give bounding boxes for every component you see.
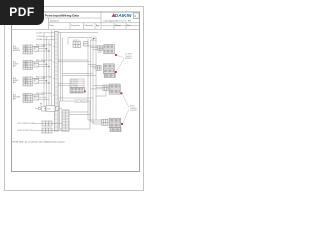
right bus R3	[92, 40, 94, 124]
mid wires lower	[63, 74, 97, 76]
feed label SIG	[36, 38, 54, 41]
feed label COM	[36, 36, 54, 38]
sensor block S2	[23, 61, 33, 70]
M2 lead	[34, 130, 43, 132]
junction dots	[43, 46, 49, 84]
sensor block S3	[23, 77, 33, 86]
callout text T1	[125, 54, 133, 61]
callout V1 upper line	[117, 56, 124, 72]
relay K4	[34, 95, 39, 100]
node G1 red	[115, 54, 117, 56]
svg-text:7 8 9: 7 8 9	[24, 51, 28, 53]
callout text T2	[130, 106, 137, 113]
svg-text:1 2 3: 1 2 3	[24, 94, 28, 96]
TB-A caption	[73, 40, 80, 42]
bus line B2	[46, 37, 48, 106]
svg-text:7 8 9: 7 8 9	[24, 83, 28, 85]
svg-text:REMOTE SETPOINT: REMOTE SETPOINT	[18, 130, 34, 132]
node dot top	[93, 38, 94, 39]
relay K2	[34, 62, 39, 67]
bus line B4	[51, 31, 53, 106]
bus line B3	[48, 40, 50, 106]
page outer border	[5, 7, 144, 191]
label box LB1	[91, 37, 96, 41]
svg-text:7 8 9: 7 8 9	[24, 99, 28, 101]
G1 terminal strip TS1	[104, 45, 115, 54]
svg-text:NOTE: Wires do not connect. Se: NOTE: Wires do not connect. See addition…	[13, 141, 66, 144]
M1 lead	[34, 123, 43, 125]
svg-text:1 2 3: 1 2 3	[24, 46, 28, 48]
svg-text:Rev: Rev	[127, 25, 132, 27]
svg-text:FIELD SENSOR WIRE: FIELD SENSOR WIRE	[18, 123, 36, 125]
feed label 24VAC	[36, 31, 54, 34]
G2 lower strip	[104, 74, 115, 78]
svg-text:4 5 6: 4 5 6	[24, 80, 28, 82]
wires S2 to bus	[33, 62, 50, 67]
S1 pin numbers	[24, 46, 28, 53]
node TT1 red	[84, 90, 86, 92]
svg-text:A: A	[134, 14, 136, 18]
wires to group G3	[91, 86, 104, 89]
svg-text:SPST: SPST	[98, 52, 102, 54]
svg-text:Checked: Checked	[85, 25, 94, 27]
S4 pin numbers	[24, 94, 28, 101]
wires S1 to bus	[33, 46, 50, 51]
M2 wire	[52, 130, 62, 132]
M2 label	[18, 130, 34, 132]
wire label W3	[36, 76, 52, 79]
node G4 red	[121, 123, 123, 125]
G2 connector CN2	[96, 65, 101, 70]
right bus R1	[87, 39, 89, 120]
svg-text:1 2 3: 1 2 3	[24, 78, 28, 80]
note text	[13, 141, 66, 144]
logo revision box	[134, 13, 139, 18]
svg-text:4 5 6: 4 5 6	[24, 64, 28, 66]
svg-text:B1 SIG: B1 SIG	[71, 84, 77, 86]
wires to TT1	[58, 84, 70, 86]
G4 connector CN4	[102, 119, 108, 125]
M1 wire	[52, 123, 62, 125]
terminal block TB-A	[73, 42, 81, 48]
svg-text:Job Name:: Job Name:	[50, 21, 60, 23]
G1 caption	[98, 52, 102, 54]
input module M1	[42, 121, 52, 126]
svg-text:1 2 3: 1 2 3	[24, 61, 28, 63]
aux riser	[40, 103, 42, 107]
svg-text:24 VAC: 24 VAC	[36, 31, 42, 34]
caption text	[75, 101, 87, 103]
svg-text:COMMON: COMMON	[36, 36, 45, 38]
sensor block S4	[23, 94, 33, 103]
relay K1	[34, 47, 39, 52]
wire label W2	[36, 59, 52, 62]
svg-text:Date: Date	[50, 24, 55, 27]
svg-text:7 8 9: 7 8 9	[24, 66, 28, 68]
svg-text:4 5 6: 4 5 6	[24, 48, 28, 50]
svg-text:Drawn by: Drawn by	[71, 24, 81, 27]
left group labels	[13, 45, 21, 101]
job name cell text	[50, 21, 132, 28]
lower enclosure	[60, 101, 91, 129]
logo address line	[104, 20, 132, 23]
callout V2 lines	[122, 94, 129, 123]
enclosure top rail	[58, 33, 98, 102]
DAIKIN logo	[112, 13, 132, 19]
G1 connector CN1	[98, 46, 103, 51]
drawing inner frame	[12, 12, 140, 172]
main connector CN10	[62, 110, 69, 131]
svg-text:App.: App.	[96, 24, 101, 27]
sensor block S1	[23, 45, 33, 54]
switch box SW1	[46, 106, 55, 112]
svg-text:Daikin Applied Americas Inc. M: Daikin Applied Americas Inc. MN	[104, 20, 132, 23]
svg-text:CLASS 2: CLASS 2	[130, 109, 137, 112]
G2 terminal strip TS2	[103, 64, 114, 74]
S2 pin numbers	[24, 61, 28, 68]
bus line B1	[43, 33, 45, 107]
terminal strip TT1 pins	[70, 88, 85, 94]
G3 terminal strip TS3	[109, 84, 120, 94]
wire bus lower	[58, 97, 93, 99]
M1 label	[18, 123, 36, 125]
title block grid	[12, 12, 140, 29]
document title text	[45, 14, 79, 18]
svg-text:SENSOR: SENSOR	[13, 50, 21, 52]
input module M2	[42, 128, 52, 133]
svg-text:4 5 6: 4 5 6	[24, 97, 28, 99]
svg-text:UNIT: UNIT	[75, 101, 79, 103]
pilot lamp P1	[38, 107, 41, 110]
terminal table TT1	[71, 79, 78, 88]
wire label W4	[36, 92, 52, 95]
connector to right bus wires	[69, 112, 102, 124]
terminal block TB-B	[84, 42, 89, 47]
aux row wires	[35, 108, 62, 110]
svg-text:FIELD: FIELD	[82, 101, 88, 103]
svg-text:Sheet: Sheet	[115, 24, 121, 27]
right bus R4	[95, 38, 97, 121]
G3 drop wire	[96, 91, 106, 97]
controller main block U1	[53, 32, 58, 132]
node G3 red	[120, 92, 122, 94]
relay K3	[34, 79, 39, 84]
wires S3 to bus	[33, 78, 50, 83]
wires to group G2	[88, 65, 96, 69]
G4 lower strip	[110, 128, 121, 132]
svg-text:MCB T1: MCB T1	[73, 40, 80, 42]
wires S4 to bus	[33, 95, 50, 100]
G4 terminal strip TS4	[109, 118, 121, 127]
svg-text:SIGNAL: SIGNAL	[36, 38, 42, 41]
svg-text:DAIKIN: DAIKIN	[115, 13, 132, 19]
node G2 red	[115, 71, 117, 73]
wires to group G1	[88, 46, 98, 49]
right bus R2	[90, 40, 92, 122]
svg-text:Point Input/Wiring Data: Point Input/Wiring Data	[45, 14, 79, 18]
wire label W1	[36, 44, 52, 47]
disconnect X1	[55, 107, 58, 111]
S3 pin numbers	[24, 78, 28, 85]
svg-text:WIRING: WIRING	[125, 58, 132, 60]
mid wires upper	[58, 60, 90, 62]
G3 connector CN3	[103, 85, 108, 91]
enclosure caption boxes	[75, 100, 88, 103]
fuse F1	[42, 106, 45, 111]
